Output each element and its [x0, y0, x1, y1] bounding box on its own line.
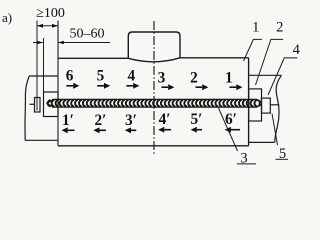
svg-text:1: 1	[252, 19, 259, 35]
svg-text:1: 1	[225, 69, 233, 86]
svg-text:2: 2	[190, 69, 198, 86]
svg-text:4: 4	[293, 42, 301, 58]
svg-text:50–60: 50–60	[70, 26, 105, 41]
svg-text:1′: 1′	[62, 112, 74, 129]
svg-text:5′: 5′	[191, 111, 203, 128]
svg-text:4′: 4′	[159, 111, 171, 128]
svg-text:2′: 2′	[95, 112, 107, 129]
svg-text:4: 4	[127, 67, 135, 84]
svg-text:3: 3	[240, 150, 247, 166]
svg-text:3: 3	[158, 69, 166, 86]
svg-text:6: 6	[66, 67, 74, 84]
svg-text:a): a)	[2, 10, 12, 25]
svg-text:5: 5	[279, 146, 286, 162]
svg-text:3′: 3′	[125, 112, 137, 129]
svg-text:2: 2	[276, 19, 283, 35]
svg-text:≥100: ≥100	[36, 6, 65, 21]
svg-text:6′: 6′	[225, 111, 237, 128]
svg-text:5: 5	[97, 67, 105, 84]
